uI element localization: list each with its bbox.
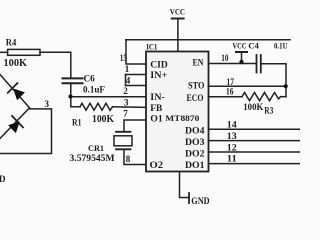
pin 4 stub [126,85,147,87]
wire crystal to pin 8 [124,149,146,164]
DO3 wire pin 13 [209,140,301,142]
svg-text:4: 4 [126,75,131,85]
DO1 wire pin 11 [209,163,301,165]
svg-text:GND: GND [191,196,210,206]
svg-text:100K: 100K [92,114,114,125]
resistor R4 body [8,49,40,55]
capacitor C4 plates [256,55,258,73]
GND tick [188,193,190,203]
svg-text:100K: 100K [243,103,264,113]
pin 16 ECO wire to R3 [209,96,243,98]
resistor R1 zigzag [80,103,113,110]
crystal bottom plate [116,148,131,150]
svg-text:EN: EN [193,57,204,67]
svg-text:16: 16 [226,87,234,97]
svg-text:IN+: IN+ [150,70,167,80]
wire node 3 to box [0,109,52,154]
DO2 wire pin 12 [209,151,301,153]
capacitor C6 plates [63,77,83,79]
crystal top plate [116,131,131,133]
svg-text:IC1: IC1 [146,41,157,51]
svg-text:VCC: VCC [233,40,247,50]
svg-text:C4: C4 [248,40,259,50]
svg-text:17: 17 [227,77,235,87]
svg-text:O2: O2 [150,160,164,170]
diode D2 cathode bar [12,116,23,128]
wire: R4 to corner and down to C6 [40,52,71,78]
crystal body CR1 [114,136,132,146]
svg-text:0.1uF: 0.1uF [83,85,105,95]
pin 17 STO wire [209,85,287,87]
VCC symbol bar [172,18,184,20]
svg-text:R1: R1 [72,118,82,128]
svg-text:STO: STO [188,81,205,91]
svg-text:C6: C6 [84,74,96,84]
DO4 wire pin 14 [209,128,301,130]
svg-text:3.579545M: 3.579545M [70,154,115,164]
wire: left input to R4 [0,51,8,53]
svg-text:R3: R3 [264,105,274,115]
svg-text:DO4: DO4 [185,125,205,135]
svg-text:15: 15 [120,53,128,63]
svg-text:R4: R4 [6,38,17,48]
diode D2 triangle [8,121,20,133]
svg-text:3: 3 [124,98,129,108]
wire R3 to right vertical [281,96,287,98]
svg-text:1: 1 [125,64,130,74]
svg-text:CID: CID [150,59,168,69]
junction dot STO/right rail [284,84,288,88]
svg-text:10: 10 [221,53,229,63]
wire: junction down to R1 [71,97,80,107]
VCC vertical to IC pin 18 [177,19,179,52]
svg-text:11: 11 [227,154,238,164]
svg-text:12: 12 [227,142,238,152]
svg-text:DO3: DO3 [185,137,205,147]
svg-text:D: D [0,174,6,184]
resistor R3 zigzag [242,93,281,101]
bracket pin1-pin4 [125,75,127,86]
svg-text:100K: 100K [4,58,28,69]
diode D1 triangle [13,89,25,101]
wire C4 to right vertical [261,64,286,97]
svg-text:O1: O1 [150,113,163,123]
svg-text:0.1U: 0.1U [274,41,288,51]
diode diagonal B (bottom) [0,108,30,139]
svg-text:CR1: CR1 [88,143,104,153]
diode D1 cathode bar [8,83,18,93]
svg-text:FB: FB [150,103,162,113]
svg-text:7: 7 [123,109,128,119]
junction dot input [68,94,72,98]
diode diagonal A (top) [0,75,30,108]
VCC stub bar [236,51,247,53]
IC box U1 MT8870 [146,52,209,172]
junction dot VCC/EN [239,60,243,64]
svg-text:8: 8 [126,154,131,164]
VCC stub vertical [241,52,243,64]
svg-text:2: 2 [123,86,128,96]
pin 7 wire to crystal [124,120,146,132]
pin 1 stub [126,74,147,76]
wire: C6 down to junction [70,83,72,97]
svg-text:3: 3 [45,99,50,109]
svg-text:13: 13 [227,131,238,141]
svg-text:14: 14 [227,119,238,129]
pin 10 EN wire to VCC stub and C4 [209,63,257,65]
GND wire [180,172,190,198]
wire: junction to IN- pin 2 [71,96,146,98]
svg-text:DO1: DO1 [185,160,205,170]
pin 15 wire [126,40,146,64]
svg-text:MT8870: MT8870 [165,113,199,123]
wire: R1 to FB pin 3 [113,106,147,109]
svg-text:IN-: IN- [150,92,165,102]
svg-text:DO2: DO2 [185,148,205,158]
svg-text:ECO: ECO [187,93,204,103]
svg-text:VCC: VCC [170,7,185,17]
top rail (CID net) [126,39,290,41]
